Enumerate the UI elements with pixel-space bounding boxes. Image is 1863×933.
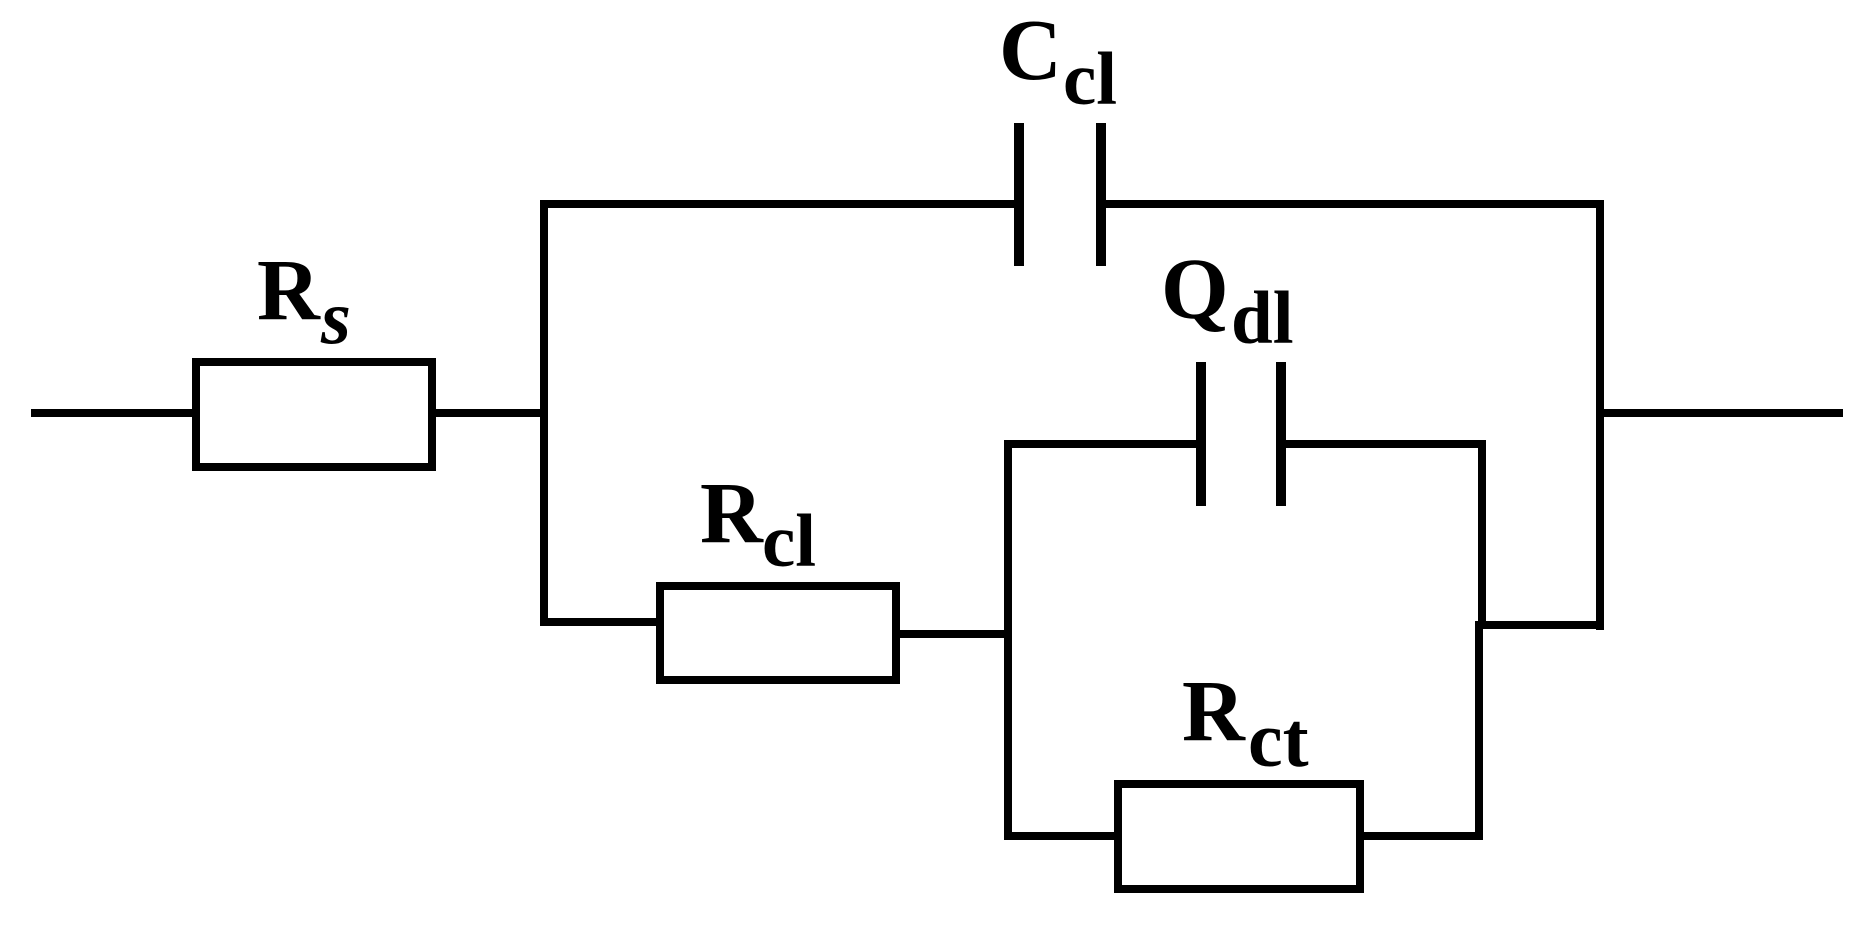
label Ccl : subscript cl	[1063, 79, 1117, 81]
wire: output lead	[1600, 409, 1843, 417]
resistor Rs	[192, 358, 436, 471]
label Rs : subscript s	[321, 316, 351, 318]
wire: Rcl to inner parallel box	[896, 630, 1012, 638]
wire: inner box right vertical lower	[1475, 621, 1483, 840]
capacitor Ccl left plate	[1014, 123, 1024, 266]
label Rs : R	[257, 289, 320, 291]
label Rcl : R	[700, 512, 763, 514]
capacitor Qdl left plate	[1196, 362, 1206, 506]
wire: top rail left segment	[540, 200, 1016, 208]
capacitor Qdl right plate	[1276, 362, 1286, 506]
label Qdl : subscript dl	[1231, 318, 1294, 320]
wire: top rail right segment	[1104, 200, 1604, 208]
label Rct : subscript ct	[1248, 739, 1309, 741]
wire: left input lead	[31, 409, 196, 417]
wire: jog to right rail	[1475, 621, 1604, 629]
wire: inner box right vertical upper	[1478, 440, 1486, 629]
resistor Rcl	[656, 582, 900, 684]
resistor Rct	[1114, 780, 1364, 893]
label Ccl : C	[999, 49, 1062, 51]
wire: lower branch from node A	[540, 618, 660, 626]
capacitor Ccl right plate	[1096, 123, 1106, 266]
wire: inner box bottom left segment	[1004, 832, 1120, 840]
label Qdl : Q	[1161, 288, 1229, 290]
wire: inner box top right segment	[1286, 440, 1486, 448]
wire: inner box top left segment	[1004, 440, 1198, 448]
wire: inner box left vertical	[1004, 440, 1012, 840]
label Rcl : subscript cl	[762, 541, 816, 543]
wire: right rail vertical	[1596, 200, 1604, 630]
wire: Rs to node A	[432, 409, 548, 417]
wire: inner box bottom right segment	[1360, 832, 1483, 840]
label Rct : R	[1182, 710, 1245, 712]
node A : junction riser	[540, 200, 548, 626]
